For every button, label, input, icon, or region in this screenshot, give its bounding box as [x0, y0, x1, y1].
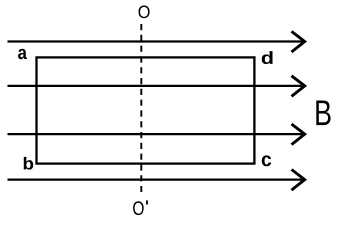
- field line arrow 1 shaft: [8, 40, 305, 42]
- corner label b: [24, 157, 34, 170]
- corner label a: [18, 49, 27, 59]
- conducting rectangular loop abcd: [37, 57, 255, 163]
- field line arrow 2 shaft: [8, 85, 305, 87]
- axis label O (top): [139, 5, 150, 18]
- axis OO' dashed line: [140, 24, 142, 192]
- apostrophe of O': [146, 200, 148, 204]
- magnetic field label B: [316, 100, 330, 125]
- field line arrow 2 head: [292, 76, 305, 97]
- axis label O' (bottom): [133, 201, 144, 215]
- field line arrow 4 head: [292, 170, 305, 191]
- field line arrow 1 head: [292, 31, 305, 52]
- field line arrow 3 head: [292, 124, 305, 145]
- field line arrow 3 shaft: [8, 133, 305, 135]
- corner label c: [262, 155, 272, 166]
- corner label d: [262, 51, 273, 64]
- field line arrow 4 shaft: [8, 179, 305, 181]
